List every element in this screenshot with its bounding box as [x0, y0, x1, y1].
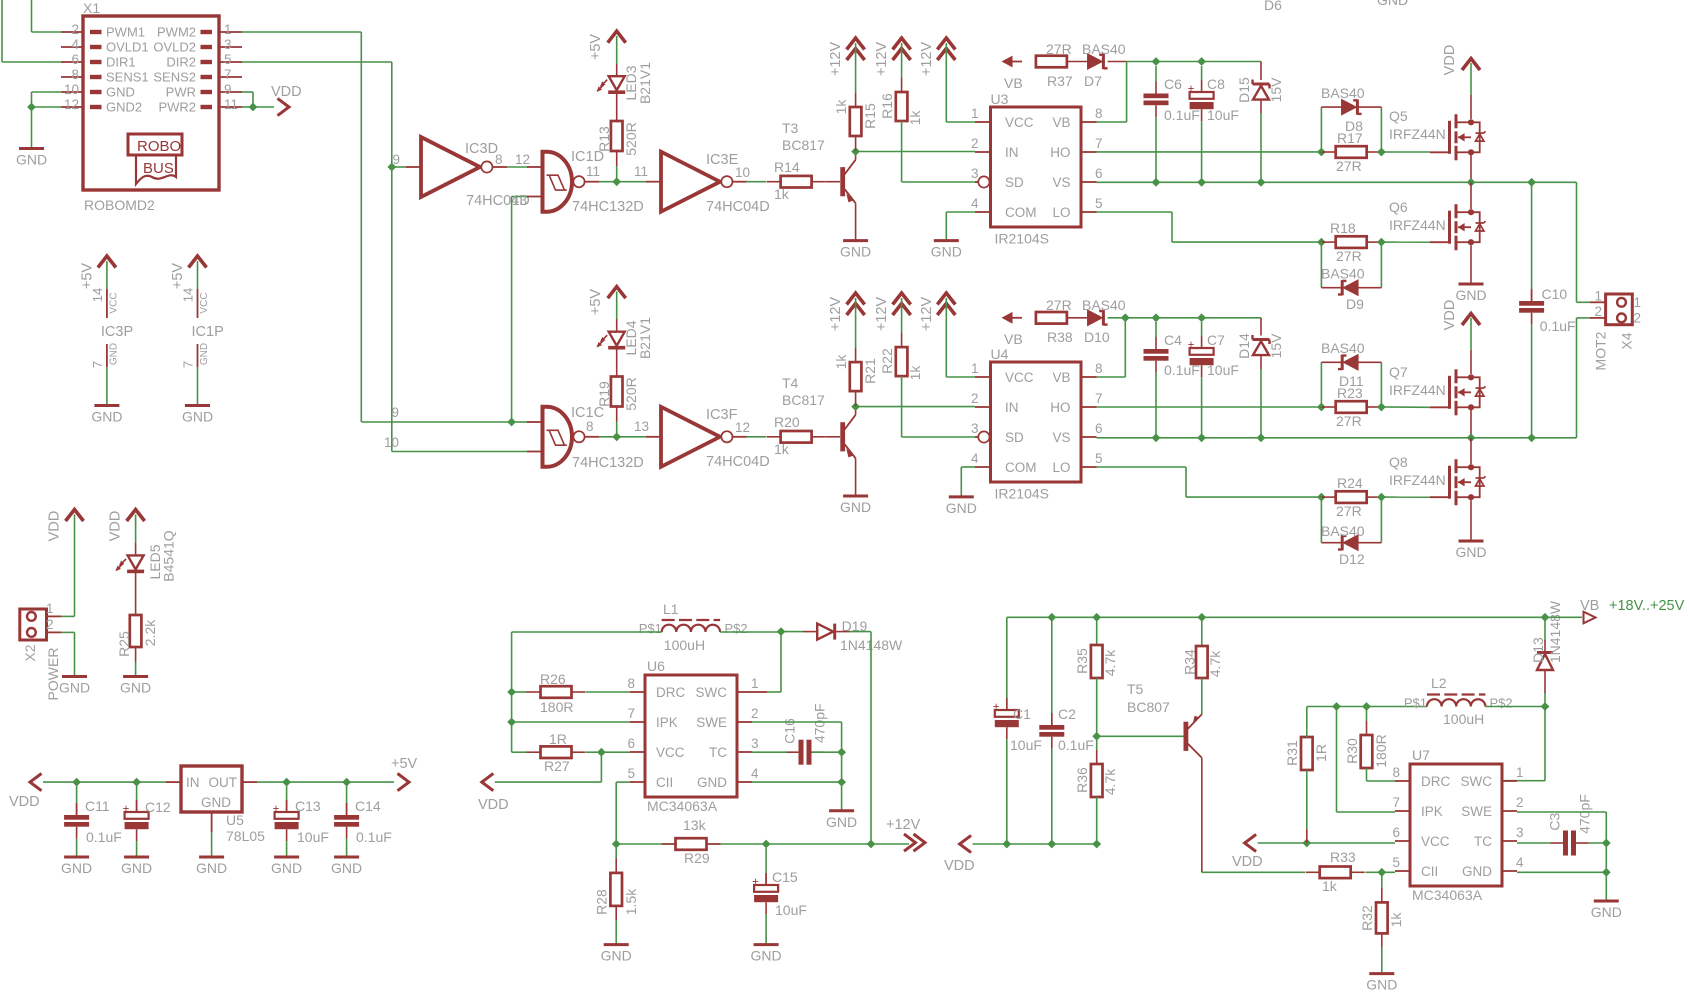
svg-text:U7: U7 — [1412, 747, 1430, 763]
wire R18 to Q6 gate — [1381, 241, 1430, 243]
svg-text:GND: GND — [1591, 904, 1622, 920]
svg-text:MC34063A: MC34063A — [647, 798, 718, 814]
svg-text:520R: 520R — [623, 122, 639, 155]
svg-text:6: 6 — [1392, 825, 1400, 840]
X1 pin 4 OVLD1 — [61, 46, 83, 48]
svg-text:TC: TC — [1474, 834, 1492, 849]
nand IC1D 74HC132D — [543, 152, 547, 212]
supply VDD arrow X2 — [66, 510, 84, 522]
wire U3 COM to ground — [946, 211, 975, 213]
svg-text:2: 2 — [46, 617, 54, 632]
wire C1 top — [1006, 617, 1008, 700]
svg-text:14: 14 — [181, 288, 196, 302]
svg-text:IC3E: IC3E — [706, 152, 739, 168]
svg-text:SD: SD — [1005, 430, 1024, 445]
nand IC1C 74HC132D — [543, 407, 547, 467]
svg-text:GND: GND — [1455, 287, 1486, 303]
svg-text:C10: C10 — [1542, 286, 1568, 302]
svg-text:OUT: OUT — [209, 775, 238, 790]
svg-text:1R: 1R — [1313, 744, 1329, 762]
ground GND at U6 — [829, 809, 854, 812]
svg-text:T3: T3 — [782, 120, 799, 136]
wire D14 to VS2 rail — [1260, 355, 1262, 369]
svg-text:P$2: P$2 — [1490, 696, 1513, 711]
svg-text:3: 3 — [751, 736, 759, 751]
svg-text:GND: GND — [106, 85, 135, 100]
svg-text:C13: C13 — [295, 798, 321, 814]
ground GND at Q8 — [1459, 540, 1484, 543]
X1 pin 3 OVLD2 — [219, 46, 242, 48]
svg-text:+: + — [1188, 84, 1195, 96]
wire D15 to VS rail — [1260, 100, 1262, 113]
wire DIR2 net vertical — [242, 61, 392, 63]
wire VS2 rail — [1097, 437, 1577, 439]
wire LO2 to R24 — [1097, 466, 1187, 468]
wire +12V to U4 VCC — [945, 298, 947, 377]
svg-text:R25: R25 — [116, 631, 132, 657]
capacitor C3 470pF — [1563, 831, 1568, 856]
svg-text:+: + — [1188, 340, 1195, 352]
wire IN net to U4 pin2 — [856, 406, 975, 408]
capacitor C6 0.1uF — [1155, 66, 1157, 82]
ground GND at X2 — [62, 675, 87, 678]
svg-text:C3: C3 — [1546, 812, 1562, 830]
svg-text:SWC: SWC — [696, 685, 728, 700]
svg-text:OVLD2: OVLD2 — [153, 40, 196, 55]
wire R26 to DRC — [586, 691, 630, 693]
capacitor C4 0.1uF — [1155, 322, 1157, 337]
wire R32 to ground — [1381, 933, 1383, 947]
supply VDD arrow Q5 — [1462, 59, 1480, 71]
svg-text:BAS40: BAS40 — [1082, 297, 1126, 313]
ground GND at C12 — [124, 856, 149, 859]
mosfet Q7 IRFZ44N — [1430, 406, 1450, 408]
wire D13 to VB rail — [1544, 640, 1546, 653]
node R36/VDD junction — [1092, 840, 1101, 849]
power pins IC1P VCC — [189, 256, 207, 268]
node C6/VS junction — [1152, 178, 1161, 187]
inverter IC3E — [661, 152, 720, 212]
wire VDD rail to U5 IN — [43, 781, 166, 783]
X1 pin 6 DIR1 — [61, 61, 83, 63]
wire U4 COM to ground — [961, 466, 975, 468]
node Q7/VS2 junction — [1467, 433, 1476, 442]
wire DIR1 from top edge — [1, 0, 3, 62]
node VB/C8 junction — [1197, 57, 1206, 66]
svg-text:74HC132D: 74HC132D — [572, 199, 644, 215]
svg-text:14: 14 — [90, 288, 105, 302]
node R35 top junction — [1092, 613, 1101, 622]
svg-text:D12: D12 — [1339, 551, 1365, 567]
svg-text:VDD: VDD — [1232, 854, 1263, 870]
wire T3 emitter to ground — [855, 203, 857, 240]
ground GND under IC3P — [94, 404, 119, 407]
wire VB rail channel1 — [1108, 61, 1127, 63]
svg-text:GND: GND — [91, 409, 122, 425]
ground GND under IC1P — [185, 404, 210, 407]
wire VDD arrow to VCC node — [495, 781, 602, 783]
svg-text:PWM1: PWM1 — [106, 25, 145, 40]
wire C3 to right branch — [1589, 842, 1607, 844]
svg-text:8: 8 — [1095, 106, 1103, 121]
supply +12V arrow output — [914, 834, 926, 851]
svg-text:COM: COM — [1005, 205, 1037, 220]
node R23 left junction — [1317, 403, 1326, 412]
supply +12V arrow VCC U4 — [937, 293, 955, 305]
resistor R31 1R — [1306, 736, 1308, 738]
svg-text:U3: U3 — [991, 91, 1009, 107]
wire IN net to U3 pin2 — [856, 151, 975, 153]
svg-text:VS: VS — [1052, 430, 1070, 445]
svg-text:8: 8 — [71, 67, 79, 82]
resistor R38 27R — [1035, 317, 1037, 319]
svg-text:VDD: VDD — [944, 858, 975, 874]
inductor L2 100uH — [1427, 699, 1485, 706]
svg-text:IN: IN — [1005, 400, 1019, 415]
wire SWC to node — [780, 632, 782, 692]
svg-text:LO: LO — [1052, 205, 1070, 220]
node R17 left junction — [1317, 148, 1326, 157]
svg-text:12: 12 — [735, 420, 750, 435]
wire PWM2 to IC1C pin9 — [512, 421, 527, 423]
svg-text:HO: HO — [1050, 400, 1070, 415]
svg-text:R14: R14 — [774, 159, 800, 175]
diode D12 BAS40 loop — [1320, 497, 1322, 543]
supply VB arrow channel1 — [1002, 56, 1013, 68]
svg-text:9: 9 — [392, 152, 400, 167]
svg-text:9: 9 — [391, 405, 399, 420]
wire T5 collector to R33 — [1202, 871, 1305, 873]
wire +12V to U3 VCC — [945, 43, 947, 122]
supply VB flag — [1584, 612, 1596, 624]
svg-text:VB: VB — [1580, 598, 1599, 614]
X1 pin 5 DIR2 — [219, 61, 242, 63]
svg-text:11: 11 — [224, 97, 238, 112]
connector X1 ROBOMD2 outline — [83, 16, 219, 190]
svg-text:VB: VB — [1004, 75, 1023, 91]
node LED3 junction — [612, 177, 621, 186]
svg-text:27R: 27R — [1336, 158, 1362, 174]
svg-text:C2: C2 — [1058, 706, 1076, 722]
svg-text:1: 1 — [1516, 765, 1524, 780]
wire IC1D pin13 from PWM2 net — [511, 197, 513, 423]
svg-text:R13: R13 — [596, 126, 612, 152]
svg-text:+18V..+25V: +18V..+25V — [1609, 598, 1685, 614]
wire +12V feedback rail — [616, 843, 909, 845]
svg-text:470pF: 470pF — [1576, 794, 1592, 834]
svg-text:74HC04D: 74HC04D — [706, 199, 770, 215]
svg-text:C1: C1 — [1013, 706, 1031, 722]
svg-text:SD: SD — [1005, 175, 1024, 190]
wire VS rail channel1 — [1097, 181, 1577, 183]
svg-text:VB: VB — [1004, 331, 1023, 347]
svg-text:X1: X1 — [83, 0, 100, 16]
svg-text:1k: 1k — [774, 186, 790, 202]
svg-text:1: 1 — [224, 22, 232, 37]
svg-text:SWC: SWC — [1461, 774, 1493, 789]
X1 pin 12 GND2 — [61, 106, 83, 108]
svg-text:R27: R27 — [544, 758, 570, 774]
svg-text:U6: U6 — [647, 658, 665, 674]
svg-text:ROBOMD2: ROBOMD2 — [84, 197, 155, 213]
node IPK junction — [507, 718, 516, 727]
svg-text:L1: L1 — [663, 601, 679, 617]
diode D10 BAS40 — [1067, 317, 1088, 319]
resistor R21 1k — [855, 361, 857, 363]
svg-text:78L05: 78L05 — [226, 828, 265, 844]
connector X4 MOT2 — [1606, 294, 1633, 325]
svg-text:27R: 27R — [1046, 41, 1072, 57]
resistor R15 1k — [855, 106, 857, 108]
svg-text:GND: GND — [840, 499, 871, 515]
svg-text:GND: GND — [946, 500, 977, 516]
svg-text:C4: C4 — [1164, 332, 1182, 348]
wire IPK to U6 — [512, 721, 630, 723]
X1 pin 7 SENS2 — [219, 76, 242, 78]
svg-text:CII: CII — [1421, 864, 1438, 879]
svg-text:Q8: Q8 — [1389, 454, 1408, 470]
wire Q8 source to ground — [1470, 500, 1472, 541]
inductor L1 100uH — [662, 625, 720, 632]
wire R22 to SD pin3 — [901, 376, 903, 437]
wire VDD to LED5 — [135, 515, 137, 544]
svg-text:VDD: VDD — [1442, 300, 1458, 331]
node GND pin junction U6 — [837, 778, 846, 787]
wire VCC node to U7 — [1307, 842, 1395, 844]
svg-text:10uF: 10uF — [1207, 362, 1239, 378]
transistor T5 BC807 — [1184, 722, 1189, 751]
wire U5 OUT to +5V — [242, 781, 257, 783]
regulator U5 78L05 — [181, 766, 242, 812]
svg-text:8: 8 — [495, 152, 503, 167]
svg-text:SWE: SWE — [696, 715, 727, 730]
svg-text:SENS2: SENS2 — [153, 70, 196, 85]
node R18 right junction — [1377, 238, 1386, 247]
svg-text:VDD: VDD — [108, 511, 124, 542]
svg-text:P$1: P$1 — [1404, 696, 1427, 711]
svg-text:8: 8 — [1095, 361, 1103, 376]
node VB2/C4 junction — [1152, 313, 1161, 322]
supply +5V arrow LED4 — [608, 287, 626, 299]
wire R33 to CII node — [1366, 871, 1382, 873]
svg-text:520R: 520R — [623, 377, 639, 410]
wire GND pin10 — [32, 91, 62, 93]
svg-text:BAS40: BAS40 — [1082, 41, 1126, 57]
power pins IC1P GND — [197, 344, 199, 367]
svg-text:GND: GND — [1455, 544, 1486, 560]
wire into IC3E — [646, 181, 661, 183]
svg-text:BUS: BUS — [143, 160, 174, 177]
svg-text:PWR: PWR — [166, 85, 196, 100]
svg-text:VDD: VDD — [271, 84, 302, 100]
power pins IC3P GND — [106, 344, 108, 367]
wire VDD to X2 pin1 — [74, 515, 76, 617]
resistor R13 520R — [616, 120, 618, 122]
svg-text:27R: 27R — [1336, 503, 1362, 519]
resistor R37 27R — [1035, 61, 1037, 63]
wire C10 to VS2 rail — [1531, 325, 1533, 438]
wire C4 to VS2 rail — [1155, 373, 1157, 438]
resistor R19 520R — [616, 376, 618, 378]
svg-text:DIR2: DIR2 — [166, 55, 196, 70]
svg-text:8: 8 — [627, 676, 635, 691]
svg-text:100uH: 100uH — [664, 637, 705, 653]
svg-text:GND: GND — [201, 795, 231, 810]
resistor R35 4.7k — [1096, 644, 1098, 646]
ground GND at U5 — [199, 856, 224, 859]
resistor R16 1k — [901, 91, 903, 93]
svg-text:R18: R18 — [1330, 220, 1356, 236]
resistor R22 1k — [901, 346, 903, 348]
node CII/R28 junction — [612, 840, 621, 849]
svg-text:5: 5 — [224, 52, 232, 67]
svg-text:2: 2 — [71, 22, 79, 37]
wire C2 top — [1051, 617, 1053, 713]
wire TC to C3 — [1517, 842, 1551, 844]
wire R17 to Q5 gate — [1381, 151, 1430, 153]
node C2 top junction — [1047, 613, 1056, 622]
svg-text:11: 11 — [586, 164, 600, 179]
node GND pin junction U7 — [1602, 868, 1611, 877]
mosfet Q5 IRFZ44N — [1430, 151, 1450, 153]
svg-text:4: 4 — [971, 451, 979, 466]
wire +5V to LED3 — [616, 36, 618, 64]
svg-text:VS: VS — [1052, 175, 1070, 190]
node R17 right junction — [1377, 148, 1386, 157]
svg-text:1: 1 — [971, 361, 979, 376]
svg-text:SWE: SWE — [1461, 804, 1492, 819]
svg-text:C11: C11 — [85, 798, 110, 814]
svg-text:R22: R22 — [879, 348, 895, 374]
led LED5 B4541Q — [128, 555, 144, 569]
svg-text:VCC: VCC — [1421, 834, 1450, 849]
mosfet Q8 IRFZ44N — [1430, 496, 1450, 498]
svg-text:HO: HO — [1050, 145, 1070, 160]
svg-text:74HC132D: 74HC132D — [572, 455, 644, 471]
node VB2/C7 junction — [1197, 313, 1206, 322]
wire L1 to D19 node — [720, 631, 781, 633]
svg-text:R29: R29 — [684, 850, 710, 866]
supply VDD arrow Q7 — [1462, 314, 1480, 326]
svg-text:7: 7 — [181, 361, 196, 368]
led LED3 B21V1 — [609, 76, 625, 90]
svg-text:T5: T5 — [1127, 681, 1144, 697]
node R23 right junction — [1377, 403, 1386, 412]
svg-text:0.1uF: 0.1uF — [1164, 107, 1200, 123]
svg-text:R34: R34 — [1182, 649, 1198, 675]
wire R27 to VCC node — [586, 751, 601, 753]
svg-text:R20: R20 — [774, 414, 800, 430]
wire R34 to T5 emitter — [1201, 678, 1203, 715]
wire R31 top to rail — [1306, 707, 1308, 738]
svg-text:1: 1 — [971, 106, 979, 121]
svg-text:3: 3 — [971, 166, 979, 181]
ground GND at X1 — [19, 147, 44, 150]
wire VDD to Q5 drain — [1470, 63, 1472, 95]
wire C2 bottom — [1051, 749, 1053, 844]
wire Q7 source to VS2 — [1470, 410, 1472, 438]
ground GND at U4 COM — [949, 495, 974, 498]
wire +12V to R22 — [901, 298, 903, 333]
X1 pin 2 PWM1 — [61, 31, 83, 33]
svg-text:1k: 1k — [833, 354, 849, 370]
capacitor C8 10uF — [1201, 66, 1203, 80]
wire top VB rail — [1007, 616, 1545, 618]
wire VCC node to U6 — [601, 751, 630, 753]
wire LED4 to R19 — [616, 349, 618, 376]
wire VDD to Q7 drain — [1470, 318, 1472, 350]
svg-text:P$2: P$2 — [725, 621, 748, 636]
node X1 ground junction — [27, 103, 36, 112]
resistor R30 180R — [1366, 707, 1368, 722]
svg-text:+5V: +5V — [588, 289, 604, 316]
resistor R26 180R — [512, 691, 527, 693]
svg-text:+: + — [273, 804, 280, 816]
svg-text:GND2: GND2 — [106, 100, 142, 115]
wire C15 to ground — [765, 914, 767, 944]
supply +12V arrow VCC U3 — [937, 38, 955, 50]
capacitor C2 0.1uF — [1039, 725, 1064, 730]
wire IPK to U7 — [1336, 707, 1338, 813]
svg-text:9: 9 — [224, 82, 232, 97]
node C11 junction — [72, 778, 81, 787]
svg-text:+12V: +12V — [874, 297, 890, 332]
ground GND at U7 — [1594, 900, 1619, 903]
svg-text:12: 12 — [64, 97, 79, 112]
svg-text:GND: GND — [840, 244, 871, 260]
wire C14 to ground — [346, 839, 348, 857]
svg-text:GND: GND — [931, 244, 962, 260]
svg-text:GND: GND — [59, 680, 90, 696]
node VCC U6 junction — [597, 748, 606, 757]
svg-text:4: 4 — [1516, 855, 1524, 870]
ground GND at R28 — [604, 943, 629, 946]
node C16/SWE junction — [837, 748, 846, 757]
diode D14 zener 15V — [1260, 318, 1262, 336]
wire into IC3F — [646, 436, 661, 438]
wire C11 to ground — [76, 839, 78, 857]
supply VDD arrow U6 — [482, 774, 494, 791]
wire R16 to SD pin3 — [901, 121, 903, 182]
node R18 left junction — [1317, 238, 1326, 247]
svg-text:8: 8 — [1392, 765, 1400, 780]
svg-text:PWR2: PWR2 — [158, 100, 196, 115]
wire Q6 drain to VS — [1470, 182, 1472, 209]
supply +12V arrow R16 — [893, 38, 911, 50]
svg-text:2.2k: 2.2k — [142, 619, 158, 646]
svg-text:100uH: 100uH — [1443, 711, 1484, 727]
wire VDD feed vertical — [511, 632, 513, 752]
wire R35 to base node — [1096, 678, 1098, 736]
svg-text:CII: CII — [656, 775, 673, 790]
supply +5V arrow output — [398, 774, 410, 791]
svg-text:+: + — [993, 702, 1000, 714]
resistor R36 4.7k — [1096, 736, 1098, 750]
diode D13 1N4148W — [1544, 693, 1546, 707]
ground GND at Q6 — [1459, 283, 1484, 286]
node VB/C6 junction — [1152, 57, 1161, 66]
transistor T4 BC817 — [840, 422, 845, 451]
diode D19 1N4148W — [781, 631, 803, 633]
supply +12V arrow R22 — [893, 293, 911, 305]
svg-text:GND: GND — [61, 860, 92, 876]
wire R25 to ground — [135, 647, 137, 662]
capacitor C13 10uF — [286, 786, 288, 800]
wire R34 top — [1201, 617, 1203, 646]
node T5 base junction — [1092, 732, 1101, 741]
svg-text:BAS40: BAS40 — [1321, 523, 1365, 539]
resistor R18 27R — [1321, 241, 1336, 243]
